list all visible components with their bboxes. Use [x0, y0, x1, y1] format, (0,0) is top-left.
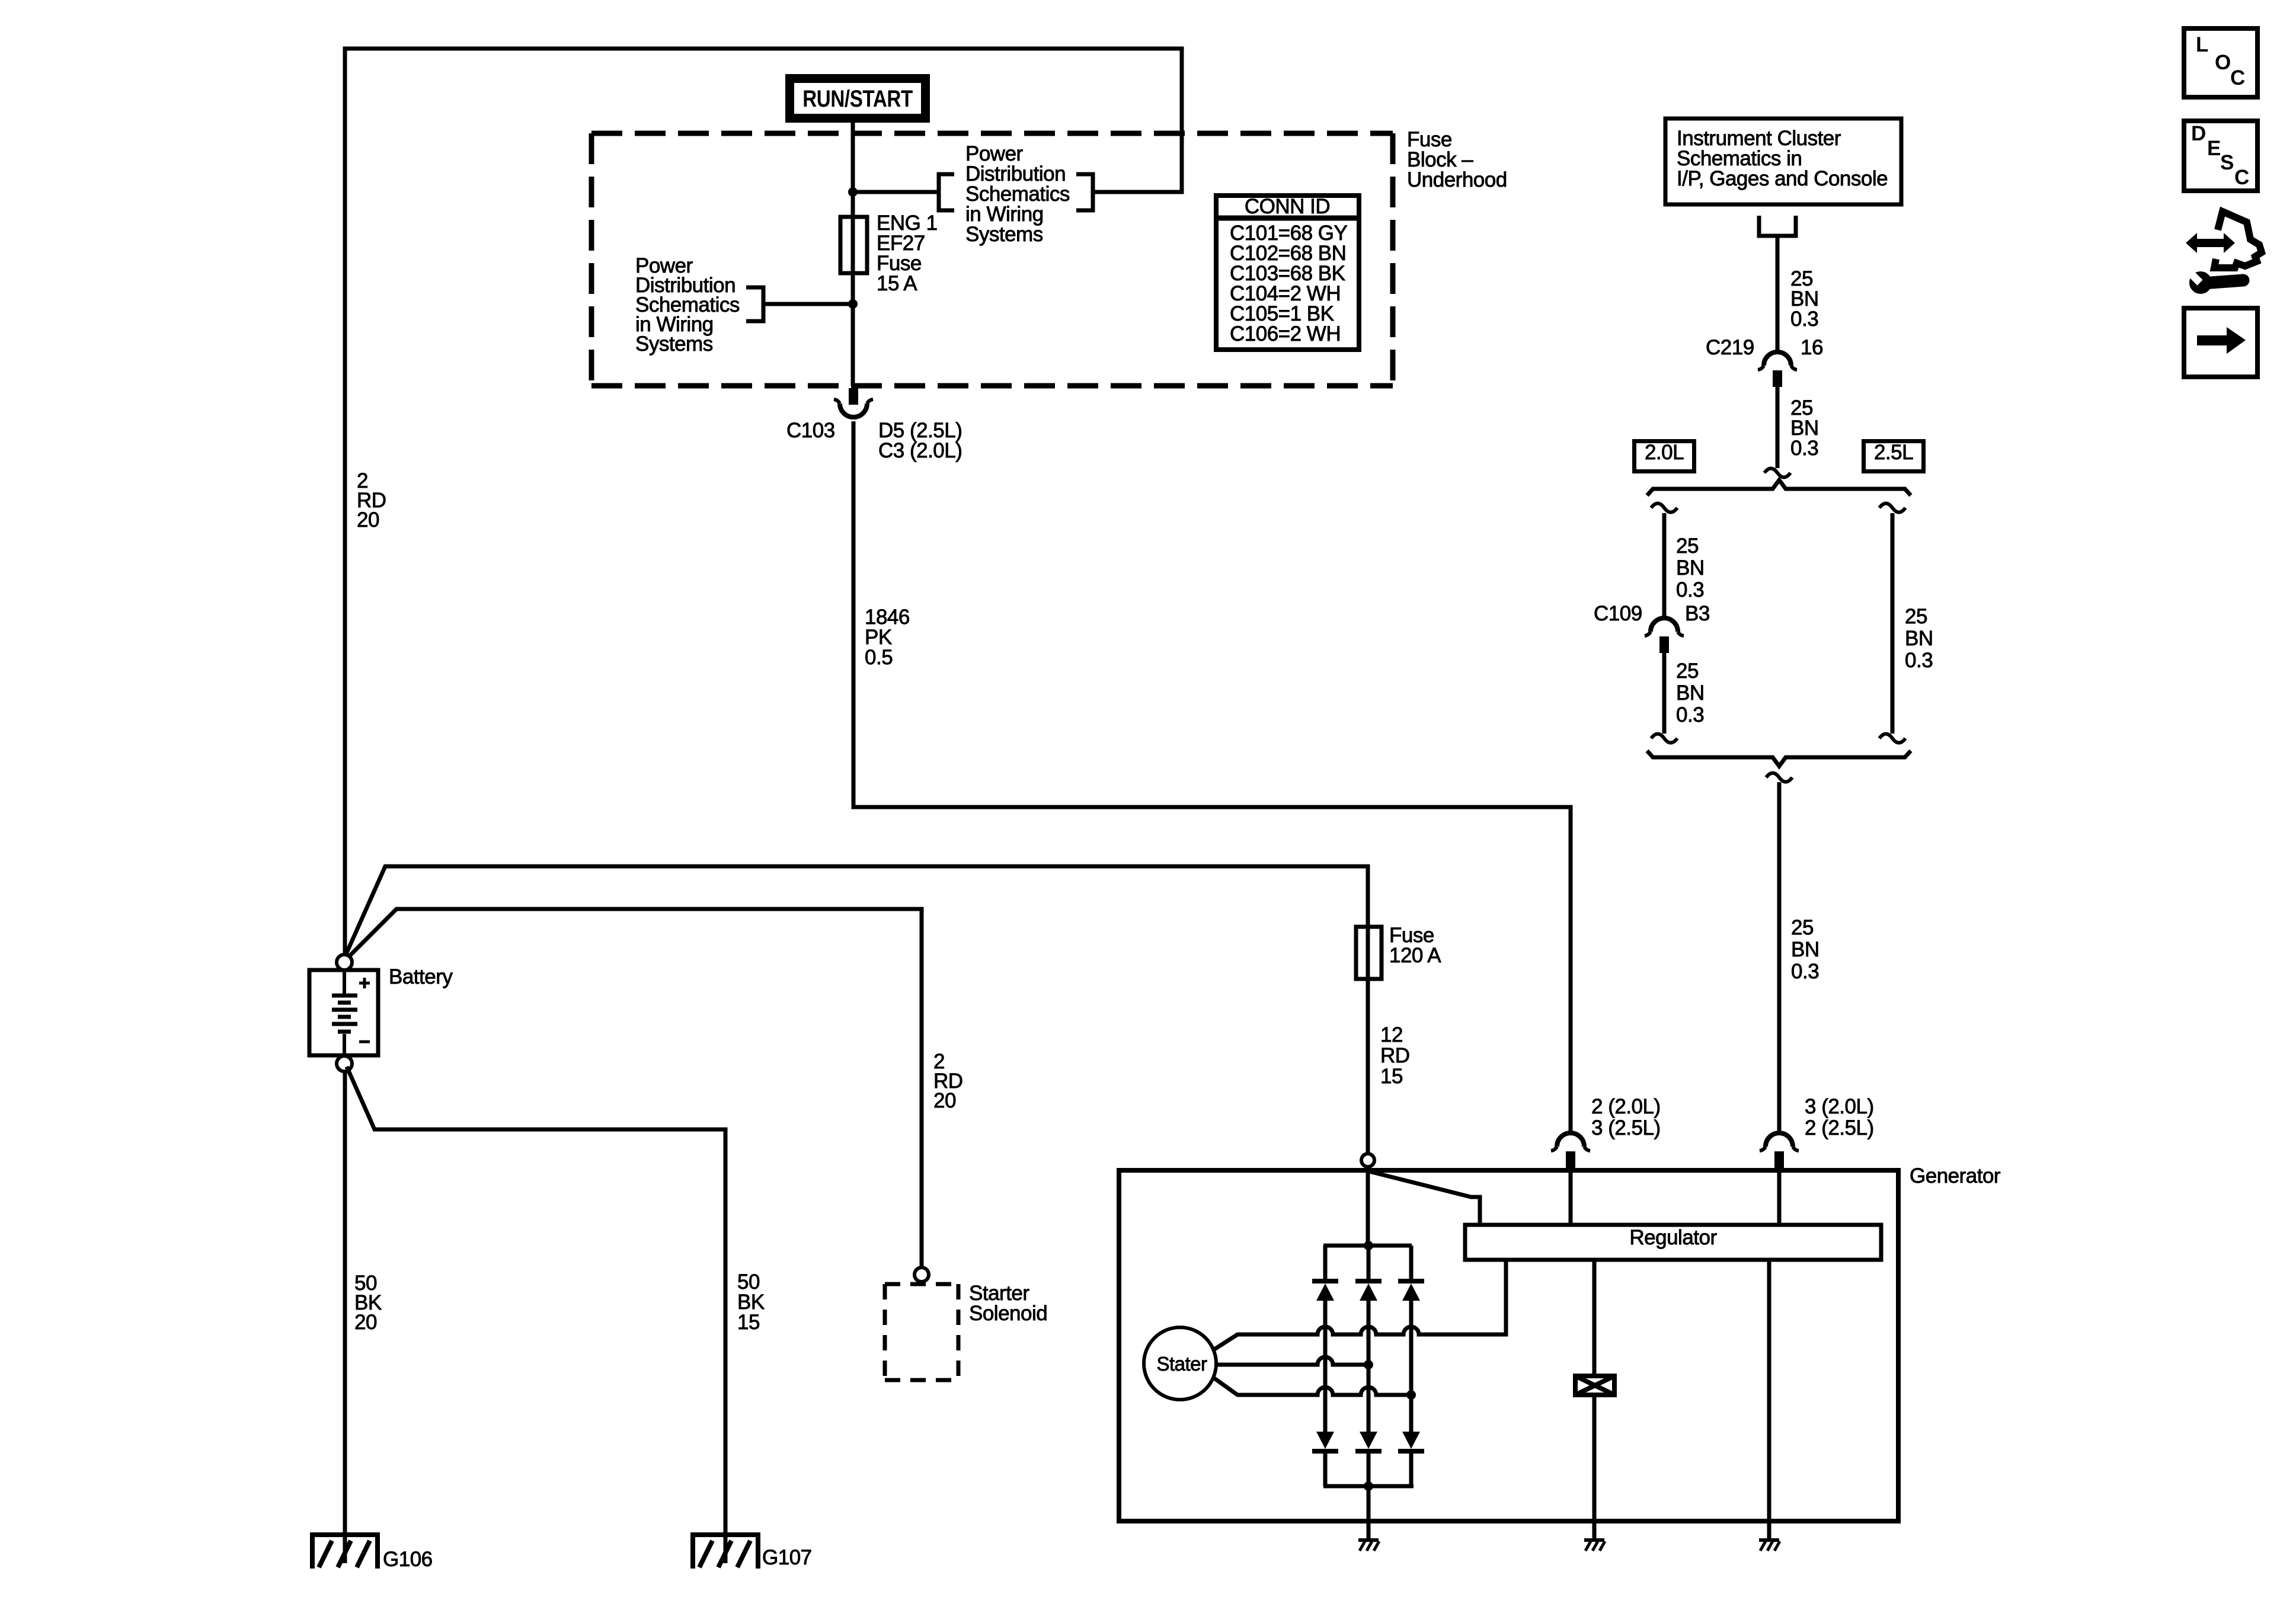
diode D2 column: [1367, 1246, 1371, 1279]
pin label: generator lamp terminal: [1805, 1096, 1874, 1139]
wire: zener to case ground: [1593, 1395, 1597, 1539]
node: generator BAT terminal: [1361, 1154, 1374, 1167]
label: instrument cluster box: [1677, 129, 1888, 189]
fuse 120 A: [1356, 927, 1382, 979]
wire: 25 BN 0.3 to generator L terminal: [1766, 773, 1792, 782]
wire: regulator right leg to case ground: [1767, 1260, 1771, 1539]
wire: into regulator from lamp terminal: [1777, 1168, 1782, 1225]
label: Fuse 120 A: [1389, 926, 1441, 966]
node: battery positive terminal: [337, 955, 352, 970]
icon: vehicle arrows and wrench: [2186, 233, 2235, 253]
connector plug below instrument cluster box: [1759, 216, 1796, 236]
rectifier positive bus: [1323, 1244, 1412, 1248]
label: circuit 2 RD 20 (solenoid): [933, 1052, 963, 1110]
wire: battery positive to 120 A fuse: [346, 866, 1368, 1154]
battery: [309, 970, 378, 1055]
ground: regulator field: [1584, 1538, 1604, 1542]
connector: generator terminal 2(2.0L)/3(2.5L): [1557, 1133, 1584, 1147]
wire: stator phase C to diode column 3: [1214, 1378, 1411, 1395]
icon: next arrow box: [2184, 308, 2257, 377]
wire: BAT terminal tap into regulator: [1370, 1172, 1480, 1225]
ground G106: [312, 1535, 378, 1569]
wire: lower Power Distribution bracket to junction: [763, 302, 853, 306]
ground: regulator right leg: [1759, 1538, 1779, 1542]
label: CONN ID title: [1245, 197, 1330, 217]
ground G107: [693, 1535, 758, 1569]
wire: BAT terminal into generator to rectifier bus: [1366, 1167, 1370, 1246]
wire: 2.0L branch 25 BN 0.3: [1651, 504, 1677, 513]
wire: 1846 PK 0.5 from C103 to generator connector: [853, 421, 1571, 1133]
wire: regulator to field/zener: [1593, 1260, 1597, 1376]
wire: stator phase A to regulator sense: [1214, 1260, 1506, 1349]
label: 25 BN 0.3 (to generator): [1791, 917, 1819, 982]
connector C109 pin B3: [1651, 618, 1678, 632]
icon letters DESC: [2191, 124, 2206, 144]
label: 25 BN 0.3 (below C109): [1676, 660, 1705, 726]
node: junction on negative bus: [1364, 1481, 1373, 1491]
label: Generator: [1910, 1166, 2000, 1186]
rectifier negative bus: [1323, 1484, 1414, 1489]
node: battery negative terminal: [337, 1056, 352, 1071]
label: ENG 1 fuse value: [877, 213, 938, 294]
label: connector id rows: [1230, 223, 1347, 344]
label: circuit 1846 PK 0.5: [865, 607, 910, 668]
label: Starter Solenoid: [969, 1283, 1047, 1324]
node: junction at lower Power Distribution tap: [848, 299, 858, 309]
brace: engine option merge (bottom): [1647, 751, 1911, 766]
wire: battery positive to starter solenoid (2 RD 20): [349, 909, 922, 1267]
icon LOC box: [2184, 28, 2257, 97]
node: junction below RUN/START at top Power Distribution tap: [848, 187, 858, 197]
label: G107: [762, 1548, 812, 1568]
label: circuit 12 RD 15: [1380, 1025, 1410, 1087]
box around 2.5L: [1862, 439, 1926, 473]
label: C109: [1594, 604, 1642, 624]
icon DESC box: [2184, 121, 2257, 191]
icon letters LOC: [2196, 35, 2208, 55]
diode D3 column: [1409, 1246, 1414, 1279]
zener diode trio symbol: [1575, 1376, 1614, 1395]
diode D1 column: [1323, 1246, 1328, 1279]
node: phase C junction: [1406, 1390, 1416, 1400]
label: 25 BN 0.3 (upper): [1790, 269, 1819, 329]
label: C103 pins: [878, 421, 962, 461]
label: circuit 50 BK 15: [737, 1272, 765, 1333]
node: phase B junction: [1364, 1360, 1373, 1369]
label RUN/START: [802, 87, 913, 111]
label: C219: [1706, 338, 1754, 358]
fuse block - underhood dashed outline: [591, 133, 1393, 386]
wire: battery negative to G106 (50 BK 20): [343, 1070, 347, 1563]
wire: battery positive to RUN/START feed (top loop): [345, 49, 1182, 957]
label: 2.0L option box: [1645, 443, 1684, 463]
node: junction on positive bus: [1364, 1241, 1373, 1250]
wire: 25 BN 0.3 from C219 to engine split: [1776, 386, 1780, 468]
brace: engine option split (top): [1647, 480, 1911, 495]
label: top power distribution note: [965, 144, 1070, 245]
label: Stater: [1156, 1354, 1207, 1374]
fuse ENG 1 EF27 15 A: [840, 217, 867, 273]
stator winding circle: [1144, 1327, 1216, 1400]
label: C103: [786, 421, 835, 441]
label: 25 BN 0.3 (second): [1790, 398, 1819, 459]
connector C219 pin 16: [1764, 352, 1791, 366]
bracket: top Power Distribution Schematics tie: [939, 174, 954, 210]
label: 25 BN 0.3 (2.5L branch): [1905, 606, 1933, 671]
wire: into regulator from field terminal: [1569, 1168, 1573, 1225]
instrument cluster schematics box: [1665, 119, 1901, 204]
pin label: generator field terminal: [1591, 1096, 1661, 1139]
label: G106: [383, 1550, 433, 1570]
regulator box: [1465, 1225, 1881, 1260]
pin label: 16: [1801, 338, 1823, 358]
wire: stator phase B to diode column 2: [1216, 1357, 1368, 1365]
label: 25 BN 0.3 (2.0L branch): [1676, 535, 1705, 601]
label: Regulator: [1629, 1228, 1716, 1248]
wire: RUN/START down through ENG 1 fuse to C103: [851, 123, 855, 386]
wire: 25 BN 0.3 from instrument cluster to C219: [1776, 236, 1780, 352]
label: circuit 50 BK 20: [354, 1273, 382, 1332]
label: circuit 2 RD 20 (battery feed): [357, 471, 386, 530]
table CONN ID: [1216, 196, 1359, 350]
wire: rectifier to case ground: [1367, 1486, 1371, 1539]
switch RUN/START box: [785, 74, 930, 123]
connector: generator terminal 3(2.0L)/2(2.5L): [1766, 1133, 1793, 1147]
label: fuse block name: [1407, 130, 1507, 190]
connector C103: [849, 388, 858, 405]
label: lower power distribution note: [635, 256, 740, 354]
node: starter solenoid terminal: [914, 1267, 929, 1282]
wire: battery negative to G107 (50 BK 15): [347, 1067, 725, 1563]
pin label: B3: [1685, 604, 1710, 624]
bracket: lower Power Distribution Schematics tie: [746, 287, 763, 321]
generator box: [1119, 1170, 1898, 1521]
ground: rectifier case: [1358, 1538, 1379, 1542]
label: 2.5L option box: [1874, 443, 1913, 463]
label: Battery: [389, 967, 452, 987]
wire: 2.5L branch 25 BN 0.3: [1879, 504, 1905, 513]
wire: fuse block internal jumper to top Power Distribution bracket: [853, 190, 939, 194]
box around 2.0L: [1632, 439, 1696, 473]
starter solenoid dashed box: [885, 1284, 958, 1380]
